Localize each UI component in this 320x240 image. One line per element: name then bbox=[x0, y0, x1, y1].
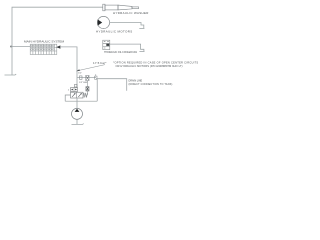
wire: pump suction bbox=[76, 119, 78, 124]
tank symbol: left line termination bbox=[5, 73, 17, 76]
svg-text:17.5 bar*: 17.5 bar* bbox=[93, 61, 107, 65]
svg-text:OR HYDRAULIC MOTORS (P/N H9089: OR HYDRAULIC MOTORS (P/N H9089897M 9HO L… bbox=[116, 64, 183, 68]
wire: valve bank to main riser bbox=[60, 47, 77, 88]
svg-text:1/2" BSP: 1/2" BSP bbox=[79, 82, 88, 84]
hydraulic motor M1 bbox=[97, 16, 109, 28]
wire: drain branch from riser bbox=[77, 77, 96, 79]
tank symbol: pump suction bbox=[72, 123, 84, 126]
tank termination: cooler line bbox=[139, 51, 144, 53]
svg-text:HYDRAULIC WASHER: HYDRAULIC WASHER bbox=[113, 11, 149, 15]
svg-text:1/2": 1/2" bbox=[78, 73, 82, 75]
unloader valve: pilot cap bbox=[71, 88, 78, 92]
cooler block dark cell bbox=[106, 44, 109, 46]
tank termination: motor line bbox=[139, 28, 144, 30]
flow arrow into valve bank (points left) bbox=[56, 45, 60, 48]
wire: valve left return loop bbox=[65, 95, 70, 101]
valve bank port circles row 2 bbox=[31, 48, 54, 50]
valve bank port circles row 1 bbox=[31, 45, 54, 47]
pilot line down to check valve bbox=[86, 81, 88, 95]
leader arrowhead bbox=[76, 69, 80, 71]
wire: valve to pump bbox=[76, 98, 78, 109]
motor shaft arrow bbox=[98, 19, 103, 25]
svg-text:MAIN HYDRAULIC SYSTEM: MAIN HYDRAULIC SYSTEM bbox=[24, 39, 64, 43]
restrictor on drain branch bbox=[86, 75, 89, 80]
spring on valve right bbox=[83, 93, 88, 98]
check valve on pilot line bbox=[86, 87, 89, 91]
svg-text:HYDRAULIC MOTORS: HYDRAULIC MOTORS bbox=[96, 30, 133, 34]
hydraulic washer: body bbox=[105, 5, 118, 10]
svg-text:1: 1 bbox=[68, 90, 70, 92]
gauge port on riser bbox=[75, 84, 78, 87]
wire: main supply loop left/top bbox=[12, 7, 103, 75]
node: junction at left rail bbox=[10, 46, 12, 48]
wire: drain line to tank bbox=[96, 79, 127, 91]
pump P1 bbox=[72, 108, 83, 119]
cooler valve block bbox=[103, 40, 110, 49]
hydraulic washer: tapered lance bbox=[118, 5, 132, 10]
leader line for pressure label bbox=[77, 65, 105, 71]
wire: cooler line to tank bbox=[110, 44, 144, 51]
fitting at drain line start bbox=[95, 76, 97, 79]
wire: branch to valve bank bbox=[11, 46, 30, 48]
svg-text:(DIRECT CONNECTION TO TANK): (DIRECT CONNECTION TO TANK) bbox=[129, 83, 173, 86]
valve bank block (grid manifold) bbox=[30, 44, 57, 54]
svg-text:HYDRAULIC OIL COOLER FAN: HYDRAULIC OIL COOLER FAN bbox=[104, 51, 137, 54]
hydraulic washer: coupler flange bbox=[103, 4, 105, 11]
svg-text:*OPTION REQUIRED IN CASE OF OP: *OPTION REQUIRED IN CASE OF OPEN CENTER … bbox=[113, 60, 198, 64]
cooler block ticks bbox=[104, 42, 109, 48]
fitting on drain branch bbox=[79, 76, 82, 79]
wire: return riser right bbox=[96, 79, 98, 101]
wire: tank header under valve bbox=[65, 100, 97, 102]
unloader valve: main spool bbox=[71, 92, 84, 98]
wire: motor output line bbox=[110, 23, 144, 29]
pump flow triangle bbox=[75, 109, 80, 112]
hydraulic washer: nozzle tip bbox=[132, 7, 139, 9]
spool arrows bbox=[72, 93, 75, 97]
